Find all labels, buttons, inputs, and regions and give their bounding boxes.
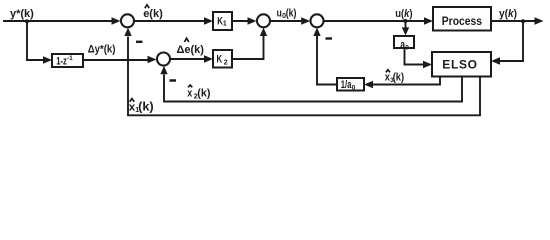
svg-text:0: 0	[405, 44, 409, 51]
label 1/a0 (block text)	[341, 79, 356, 92]
wire: y*(k) input line to summing junction S1	[3, 17, 121, 25]
svg-text:Δy*(k): Δy*(k)	[88, 44, 116, 56]
summing junction S4	[157, 53, 170, 66]
block ELSO	[432, 52, 491, 77]
wire: branch down and right into 1-z^-1 block	[27, 21, 52, 64]
svg-text:1/a: 1/a	[341, 79, 352, 91]
node: branch dot on y*(k) line	[25, 19, 29, 23]
label x2-hat(k)	[187, 87, 211, 100]
hat accent of x2-hat(k)	[188, 85, 192, 87]
svg-text:K: K	[217, 54, 223, 66]
minus sign at S1 feedback input	[136, 41, 143, 43]
wire: S3 output u(k) to Process block	[324, 17, 433, 25]
minus sign at S3 feedback input	[326, 37, 333, 39]
summing junction S2	[257, 14, 270, 27]
wire: K2 output right and up into S2 bottom	[232, 28, 267, 59]
block K2	[213, 50, 232, 68]
wire: ELSO x1-hat output down, left and up into S1 bottom (minus)	[124, 28, 480, 116]
svg-text:0: 0	[352, 85, 356, 92]
wire: S1 output e-hat(k) to block K1	[135, 17, 213, 25]
wire: K1 output to summing junction S2	[232, 17, 257, 25]
node: branch dot on y(k) line	[521, 19, 525, 23]
svg-text:(k): (k)	[138, 102, 154, 114]
summing junction S1	[121, 14, 134, 27]
wire: Process output y(k) to the right edge	[491, 17, 544, 25]
svg-text:1-z: 1-z	[56, 56, 67, 68]
svg-text:ELSO: ELSO	[442, 57, 477, 71]
block Process	[433, 7, 491, 31]
wire: y(k) branch down and left into ELSO right input	[491, 21, 523, 65]
label u0(k)	[277, 7, 297, 20]
wire: u(k) branch down into block a0	[402, 21, 409, 36]
hat accent of x1-hat(k)	[130, 99, 135, 102]
label x3-hat(k)	[385, 71, 405, 84]
summing junction S3	[311, 14, 324, 27]
label K1	[217, 15, 227, 27]
svg-text:Δe(k): Δe(k)	[177, 44, 205, 56]
svg-text:u(k): u(k)	[395, 8, 413, 20]
hat accent of x3-hat(k)	[386, 70, 390, 73]
svg-text:1: 1	[223, 20, 227, 27]
svg-text:e(k): e(k)	[143, 8, 163, 20]
svg-text:y(k): y(k)	[499, 8, 517, 20]
wire: S2 output u0(k) to summing junction S3	[270, 17, 310, 25]
block: 1-z^-1	[52, 54, 83, 67]
svg-text:u: u	[277, 7, 282, 19]
wire: ELSO x2-hat output down, left and up into S4 bottom (minus)	[160, 66, 462, 102]
label a0 (block text)	[400, 39, 409, 52]
svg-text:Process: Process	[442, 16, 482, 28]
hat accent of e-hat(k)	[145, 5, 149, 8]
svg-text:(k): (k)	[286, 7, 297, 19]
block 1/a0	[337, 78, 364, 91]
svg-text:(k): (k)	[197, 87, 211, 99]
svg-text:x: x	[187, 87, 193, 99]
svg-text:-1: -1	[67, 55, 73, 62]
svg-text:y*(k): y*(k)	[10, 8, 34, 20]
svg-text:(k): (k)	[393, 71, 405, 83]
wire: S4 output delta-e-hat(k) to block K2	[171, 55, 214, 63]
node: branch dot on u(k) line	[404, 19, 408, 23]
wire: a0 output down and right into ELSO left input	[405, 48, 433, 68]
label K2	[217, 54, 228, 67]
svg-text:2: 2	[224, 59, 228, 66]
wire: ELSO x3-hat output down and left into block 1/a0	[364, 77, 440, 89]
label x1-hat(k)	[129, 102, 154, 114]
block K1	[213, 12, 232, 30]
block a0	[394, 36, 414, 48]
hat accent of delta-e-hat(k)	[184, 38, 188, 42]
wire: 1/a0 output left then up into S3 bottom (minus)	[313, 28, 337, 85]
label 1-z^-1 (block text)	[56, 55, 73, 67]
wire: 1-z^-1 output (delta y*) to summing junction S4	[83, 56, 157, 64]
minus sign at S4 feedback input	[170, 79, 177, 82]
